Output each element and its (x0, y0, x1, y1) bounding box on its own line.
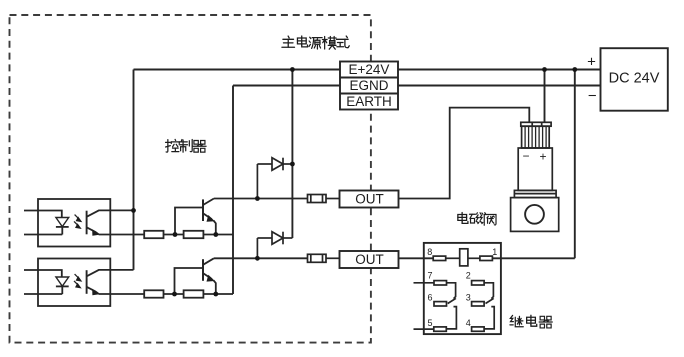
wire: coil to pin1 (468, 257, 480, 259)
node: D4 anode / OUT2 rail (255, 256, 260, 261)
wire: U1 anode input stub (24, 211, 62, 218)
optocoupler U1 (24, 199, 134, 247)
node: U1 collector tap (131, 208, 136, 213)
OUT terminal 2 (340, 251, 399, 268)
svg-text:EARTH: EARTH (346, 94, 392, 109)
wire: left +24V vertical drop (133, 70, 135, 270)
wire: EGND rail left segment (233, 85, 340, 87)
label 控制器 (166, 139, 207, 152)
node B ch2 (172, 292, 177, 297)
wire: solenoid + feed vertical (544, 70, 546, 123)
relay K1 (414, 243, 501, 334)
wire: Q2 collector rail to OUT2 (214, 257, 308, 259)
transistor Q2 (203, 258, 216, 294)
transistor Q1 (203, 199, 216, 235)
label 继电器 (510, 315, 552, 328)
wire: Q1 collector rail to OUT1 (214, 198, 308, 200)
wire: R1 to R2 (164, 234, 184, 236)
OUT terminal 1 (340, 191, 399, 208)
node: top rail / diode tap (290, 67, 295, 72)
wire: U2 anode input stub (24, 270, 62, 277)
series element FB1 (308, 195, 340, 203)
wire: EGND vertical drop (232, 86, 234, 295)
LED D1 (56, 218, 69, 235)
resistor R2 (184, 231, 204, 238)
wire: EGND rail right segment (398, 85, 601, 87)
V1 coil winding block (522, 126, 550, 148)
wire: relay pin1 feed vertical (574, 70, 576, 259)
wire: U2 emitter to R3 (99, 293, 144, 295)
phototransistor U2 (87, 270, 134, 295)
NO contact 4 (484, 307, 494, 329)
node: D3 anode / OUT1 rail (255, 196, 260, 201)
wire: U2 cathode input stub (24, 293, 62, 295)
wire: relay pin1 horizontal (492, 257, 574, 259)
node: Q2 emitter (213, 292, 218, 297)
V1 terminal strip (521, 122, 551, 126)
V1 port circle (525, 205, 544, 224)
light arrows U2 (74, 274, 82, 288)
svg-text:1: 1 (492, 247, 497, 257)
LED D2 (56, 277, 69, 294)
pin number labels K1 (427, 247, 497, 328)
pin 8 terminal (433, 256, 446, 260)
wire: pin8 to coil (446, 257, 460, 259)
wire: node B to base of Q2 (175, 268, 204, 294)
wire: OUT1 to solenoid (399, 108, 530, 199)
V1 valve body (511, 198, 559, 232)
node A ch1 (173, 232, 178, 237)
flyback diode D4 (257, 232, 292, 259)
node: top rail / solenoid feed (542, 67, 547, 72)
wire: R2 to EGND vertical (203, 234, 233, 236)
svg-text:5: 5 (428, 318, 433, 328)
svg-text:+: + (587, 54, 596, 71)
node: Q1 emitter (213, 232, 218, 237)
svg-text:4: 4 (466, 318, 471, 328)
label 电磁阀 (458, 212, 496, 225)
flyback diode D3 (257, 158, 292, 199)
NO contact 5 (446, 307, 456, 329)
svg-text:−: − (588, 88, 597, 105)
wire: U1 cathode input stub (24, 234, 62, 236)
resistor R1 (144, 231, 163, 238)
contact blade 7-6 (447, 283, 456, 304)
node: D3 cathode (290, 162, 295, 167)
DC 24V supply box (601, 48, 668, 110)
pin 4 terminal (472, 327, 485, 331)
svg-text:8: 8 (427, 247, 432, 257)
contact blade 2-3 (484, 283, 493, 304)
svg-text:OUT: OUT (355, 192, 384, 207)
svg-text:7: 7 (428, 270, 433, 280)
wire: R3 to R4 (164, 293, 184, 295)
V1 flange (514, 190, 556, 197)
V1 coil body (518, 148, 552, 190)
wire: node A to base of Q1 (175, 208, 203, 235)
pin 5 terminal (434, 327, 447, 331)
relay coil L1 (460, 249, 468, 266)
wire: U1 emitter to R1 (99, 234, 144, 236)
svg-text:+: + (539, 149, 546, 163)
pin 1 terminal (480, 256, 493, 260)
controller dashed enclosure (10, 15, 371, 343)
wire: OUT2 to relay pin8 (399, 257, 434, 259)
node: top rail / relay feed (572, 67, 577, 72)
phototransistor U1 (87, 210, 134, 235)
terminal block E+24V/EGND/EARTH (340, 62, 398, 110)
channel 1 base network (99, 208, 233, 239)
svg-text:−: − (522, 149, 529, 163)
channel 2 base network (99, 268, 233, 298)
light arrows U1 (74, 215, 82, 229)
svg-text:6: 6 (428, 292, 433, 302)
pin 3 terminal (472, 302, 485, 306)
pin 2 terminal (472, 281, 485, 285)
resistor R4 (184, 290, 204, 297)
wire: diode tap vertical (291, 70, 293, 239)
svg-text:OUT: OUT (355, 252, 384, 267)
optocoupler U2 (24, 259, 134, 307)
solenoid valve V1 (511, 122, 559, 231)
pin 7 terminal (434, 281, 447, 285)
wire: R4 to EGND vertical (203, 293, 233, 295)
resistor R3 (144, 290, 163, 297)
wire: pin7 stub (414, 282, 435, 284)
wire: +24V top rail left segment (134, 69, 341, 71)
wire: pin5 stub (414, 328, 434, 330)
pin 6 terminal (434, 302, 447, 306)
wire: +24V top rail right segment (398, 69, 601, 71)
svg-text:DC 24V: DC 24V (609, 71, 660, 87)
label 主电源模式 (282, 36, 349, 49)
series element FB2 (308, 254, 340, 262)
svg-text:2: 2 (466, 270, 471, 280)
svg-text:3: 3 (466, 292, 471, 302)
svg-text:E+24V: E+24V (349, 62, 390, 77)
svg-text:EGND: EGND (349, 78, 388, 93)
